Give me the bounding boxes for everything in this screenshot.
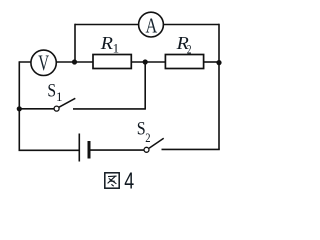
junction node left of R1 xyxy=(72,59,77,64)
svg-text:2: 2 xyxy=(145,130,150,145)
svg-text:2: 2 xyxy=(187,41,192,56)
wire S1 branch vertical up to node xyxy=(144,62,146,109)
switch S1 xyxy=(54,98,75,111)
wire S2 fixed contact xyxy=(162,148,220,150)
svg-text:1: 1 xyxy=(113,41,120,56)
caption 图 (drawn glyph) xyxy=(105,173,119,188)
label R1 xyxy=(100,33,119,55)
wire S1 fixed contact xyxy=(73,108,146,110)
svg-text:A: A xyxy=(146,13,158,37)
voltmeter V xyxy=(31,50,56,75)
svg-text:V: V xyxy=(38,51,49,75)
resistor R1 xyxy=(93,55,131,69)
svg-text:S: S xyxy=(47,81,56,102)
wire mid horizontal left xyxy=(19,61,93,63)
wire S1 feed xyxy=(19,108,54,110)
junction node on left vertical xyxy=(17,106,22,111)
junction node between R1 and R2 xyxy=(143,59,148,64)
wire bottom left xyxy=(19,149,80,151)
wire right vertical xyxy=(218,24,220,150)
wire battery to S2 xyxy=(91,149,145,151)
svg-text:R: R xyxy=(100,33,113,53)
wire between R1 and R2 xyxy=(131,61,165,63)
switch S2 xyxy=(144,138,164,152)
wire R2 to right vertical xyxy=(204,61,219,63)
wire top-left vertical xyxy=(74,24,76,62)
resistor R2 xyxy=(165,55,203,69)
label S1 xyxy=(47,81,62,105)
wire left vertical xyxy=(18,61,20,151)
wire top horizontal xyxy=(75,24,219,26)
ammeter A xyxy=(139,12,164,37)
battery cell xyxy=(79,134,89,162)
label S2 xyxy=(137,119,151,146)
svg-text:1: 1 xyxy=(56,89,63,104)
junction node on right vertical xyxy=(216,60,221,65)
svg-text:4: 4 xyxy=(124,168,134,194)
label R2 xyxy=(176,33,192,56)
